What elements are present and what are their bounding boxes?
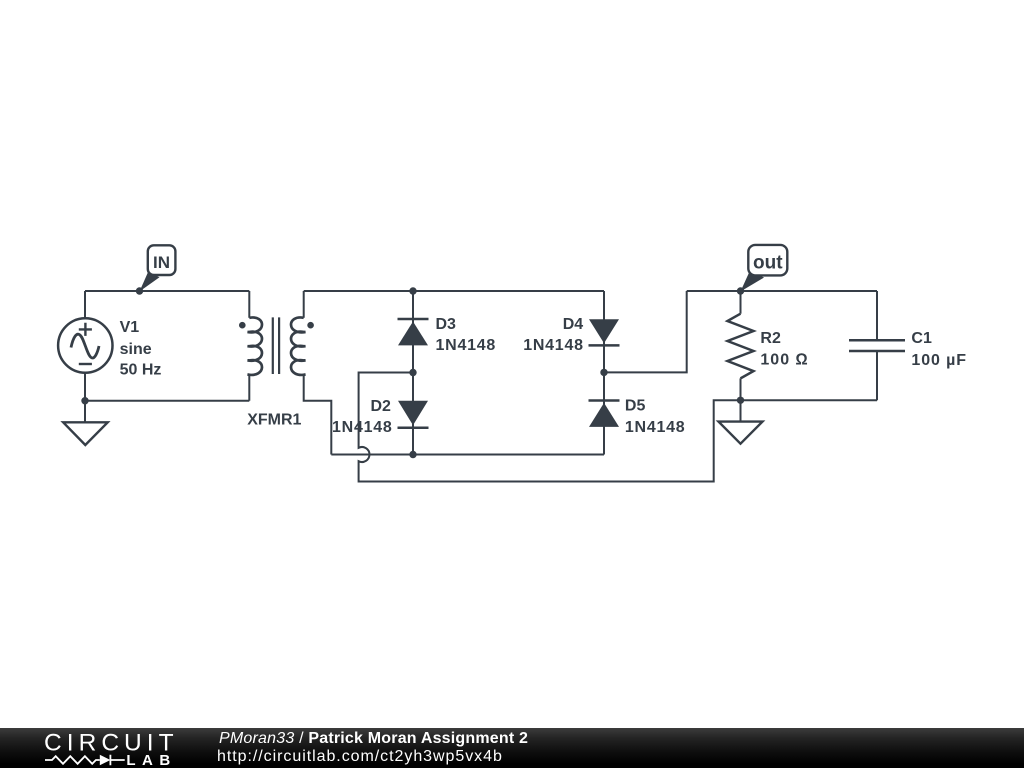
wire XFMR1 secondary bottom to bottom rail — [304, 375, 332, 455]
wire bottom-left rail V1 to XFMR1 primary — [85, 375, 249, 401]
svg-text:1N4148: 1N4148 — [625, 419, 686, 436]
svg-text:XFMR1: XFMR1 — [247, 412, 301, 429]
wire D4-D5 junction to output rail — [604, 291, 687, 372]
svg-text:1N4148: 1N4148 — [436, 337, 497, 354]
junction node D3-D2 — [409, 369, 416, 376]
svg-text:50 Hz: 50 Hz — [120, 362, 162, 379]
resistor R2 — [728, 314, 754, 379]
diode D4 — [589, 319, 620, 345]
svg-text:D2: D2 — [371, 398, 392, 415]
svg-text:V1: V1 — [120, 319, 140, 336]
svg-text:IN: IN — [153, 253, 170, 272]
footer title line — [219, 730, 819, 748]
wire V1 ground stem — [84, 401, 86, 423]
node out flag — [737, 245, 788, 295]
node IN flag — [136, 245, 176, 294]
diode D3 — [398, 319, 429, 345]
svg-text:100 Ω: 100 Ω — [760, 351, 808, 368]
junction node top rail at D3 — [409, 287, 416, 294]
junction node R2 ground — [737, 397, 744, 404]
wire XFMR1 secondary top to rail — [303, 291, 305, 318]
wire top right rail — [687, 290, 877, 292]
svg-text:C1: C1 — [911, 330, 932, 347]
wire bottom right rail — [741, 399, 878, 401]
svg-text:1N4148: 1N4148 — [523, 337, 584, 354]
svg-text:D5: D5 — [625, 398, 646, 415]
ground at R2 — [719, 422, 763, 444]
svg-text:100 µF: 100 µF — [911, 352, 967, 369]
footer url line — [217, 748, 817, 766]
wire XFMR1 primary top stem — [248, 291, 250, 318]
svg-text:out: out — [753, 252, 783, 273]
junction node D4-D5 — [600, 369, 607, 376]
ground at V1 — [63, 422, 107, 445]
wire top-left rail V1 to XFMR1 primary — [85, 290, 249, 292]
svg-text:D3: D3 — [436, 316, 457, 333]
junction node bottom rail at D2 — [409, 451, 416, 458]
capacitor C1 — [849, 340, 905, 351]
voltage source V1 — [58, 318, 112, 372]
svg-text:1N4148: 1N4148 — [332, 419, 393, 436]
diode D2 — [398, 401, 429, 428]
label C1 value — [911, 330, 967, 369]
transformer XFMR1 — [248, 317, 306, 375]
junction node V1 ground — [81, 397, 88, 404]
wire R2 top stem — [740, 291, 742, 314]
wire V1 bottom stem — [84, 373, 86, 401]
svg-text:D4: D4 — [563, 316, 584, 333]
label D2 — [332, 398, 393, 436]
label D4 — [523, 316, 584, 354]
wire R2 ground stem — [740, 400, 742, 421]
svg-text:sine: sine — [120, 341, 152, 358]
CircuitLab logo — [0, 728, 200, 768]
footer bar — [0, 728, 1024, 768]
XFMR1 phase dots — [239, 322, 314, 329]
label D5 — [625, 398, 686, 437]
wire bridge bottom rail — [331, 454, 604, 456]
wire D4 D5 column — [603, 291, 605, 455]
diode D5 — [589, 401, 620, 427]
wire center node to ground net with hop — [359, 373, 741, 482]
wire V1 top stem — [84, 291, 86, 318]
wire R2 bottom stem — [740, 378, 742, 400]
wire C1 bottom stem — [876, 351, 878, 400]
label R2 value — [760, 330, 808, 368]
wire D3 D2 column — [412, 291, 414, 455]
svg-text:LAB: LAB — [126, 752, 176, 768]
label D3 — [436, 316, 497, 354]
wire top rail to bridge — [304, 290, 604, 292]
svg-text:R2: R2 — [760, 330, 781, 347]
label V1 value — [120, 319, 162, 379]
wire C1 top stem — [876, 291, 878, 340]
